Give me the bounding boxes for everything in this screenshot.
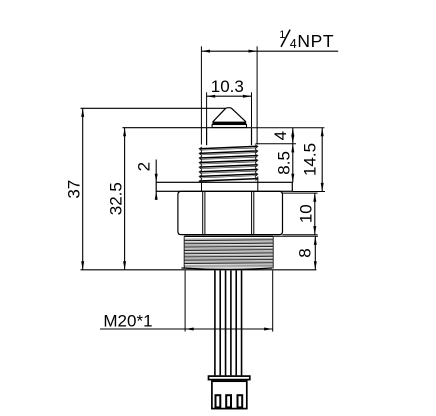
NPT thread (1/4NPT) (199, 145, 258, 183)
tip base plate (212, 122, 246, 128)
thread end cap (bottom arc) (181, 268, 272, 269)
dim M20*1 (100, 270, 273, 331)
dim 14.5 (252, 128, 326, 192)
svg-text:32.5: 32.5 (107, 182, 126, 215)
dim 2 (washer thickness) (135, 160, 158, 200)
bottom extension line (shared 37/32.5/8) (81, 269, 317, 271)
svg-text:10.3: 10.3 (211, 77, 244, 96)
svg-text:8: 8 (296, 248, 315, 257)
dim 10 (hex height) (283, 193, 318, 235)
dim 10.3 (207, 77, 252, 127)
probe tip cone (213, 108, 246, 122)
dim 1/4NPT (201, 29, 338, 144)
dim 37 (65, 108, 226, 269)
dim 8 (M20 thread length) (273, 236, 318, 269)
connector flange (209, 376, 250, 380)
svg-text:M20*1: M20*1 (103, 311, 152, 330)
sealing washer (156, 182, 292, 191)
svg-text:37: 37 (65, 180, 84, 199)
cable wires (215, 270, 242, 375)
connector body (212, 381, 247, 408)
dim 4 (256, 128, 297, 183)
svg-text:NPT: NPT (297, 31, 334, 51)
svg-text:2: 2 (135, 162, 154, 171)
connector pins (216, 395, 243, 407)
svg-text:10: 10 (297, 204, 316, 223)
svg-text:4: 4 (290, 37, 297, 51)
dim 32.5 (107, 128, 207, 270)
svg-text:8.5: 8.5 (274, 151, 293, 175)
shank tube (10.3 dia) (207, 128, 252, 146)
svg-text:14.5: 14.5 (301, 143, 320, 176)
NPT thread stubs through washer (202, 177, 258, 192)
M20 thread block (184, 236, 273, 268)
dim 8.5 (274, 144, 294, 183)
svg-text:4: 4 (271, 131, 290, 140)
hex nut (178, 191, 283, 234)
